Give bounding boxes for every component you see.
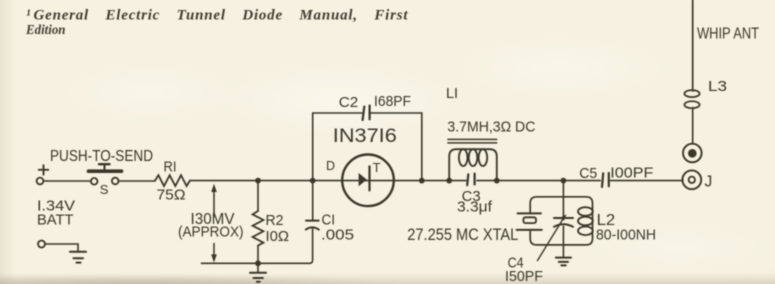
tunnel diode (circle) [342, 155, 394, 207]
svg-text:IN37I6: IN37I6 [333, 126, 397, 147]
node D junction (C1 / C2 tap) [310, 178, 316, 184]
wire C2 feedback loop left/top [313, 113, 362, 181]
inductor L1 loops [459, 149, 487, 166]
node: C2 right junction [419, 178, 425, 184]
capacitor C4 (variable) [554, 218, 573, 245]
battery positive terminal + [37, 165, 49, 184]
svg-text:80-I00NH: 80-I00NH [596, 227, 656, 244]
wire R2 bottom [257, 246, 259, 264]
wire tank junction down to C4 [562, 181, 564, 218]
wire plug to L3 [692, 108, 694, 144]
tunnel diode triangle (anode) [359, 173, 367, 186]
svg-text:I0Ω: I0Ω [266, 228, 290, 245]
node: rail junction under R2 [255, 260, 261, 266]
node: L1 left junction [446, 178, 452, 184]
svg-text:J: J [705, 174, 713, 191]
switch S (push button) [89, 164, 122, 184]
svg-text:C2: C2 [339, 94, 359, 111]
svg-text:PUSH-TO-SEND: PUSH-TO-SEND [50, 148, 153, 165]
svg-text:WHIP ANT: WHIP ANT [697, 26, 759, 43]
ground (tank) [556, 245, 571, 266]
capacitor C5 [602, 173, 609, 187]
svg-text:3.3μf: 3.3μf [457, 199, 493, 216]
node: tank circuit junction [561, 178, 567, 184]
resistor R1 [155, 175, 190, 186]
wire C2 loop right [370, 113, 422, 181]
tank outline (top/bottom rails and L2 branch) [530, 197, 592, 245]
svg-text:Edition: Edition [25, 23, 66, 38]
bottom rail wire (R2/C1 ground rail) [202, 229, 313, 263]
label 1.34V BATT [37, 198, 75, 229]
svg-text:R2: R2 [266, 212, 284, 229]
svg-text:75Ω: 75Ω [157, 187, 186, 204]
wire R2 top [257, 181, 259, 211]
svg-text:27.255 MC XTAL: 27.255 MC XTAL [407, 225, 518, 244]
node: R2 top junction [255, 178, 261, 184]
svg-text:General Electric Tunnel Diode: General Electric Tunnel Diode Manual, Fi… [34, 8, 409, 24]
node: L1 right junction [494, 178, 500, 184]
svg-text:T: T [373, 160, 381, 175]
svg-text:L3: L3 [708, 79, 727, 95]
measurement arrow 130MV [211, 184, 217, 263]
wire C5 to jack J [611, 180, 684, 182]
svg-text:(APPROX): (APPROX) [178, 224, 244, 241]
svg-text:¹: ¹ [26, 8, 31, 24]
crystal Y1 body [523, 217, 536, 223]
connector jack J (open center) [682, 170, 701, 189]
wire R1 to diode [190, 180, 466, 182]
inductor L1 outline [449, 149, 497, 180]
svg-text:I68PF: I68PF [374, 93, 411, 110]
wire C1 top [312, 181, 314, 221]
svg-text:S: S [100, 182, 109, 197]
ground (R2/C1 rail) [250, 263, 266, 282]
ground (battery) [70, 252, 86, 263]
crystal Y1 plates [517, 213, 542, 230]
resistor R2 [253, 211, 264, 246]
wire + terminal to switch [43, 180, 91, 182]
capacitor C1 [306, 221, 319, 230]
capacitor C3 [467, 174, 474, 186]
wire whip antenna [692, 0, 694, 91]
svg-text:BATT: BATT [37, 212, 74, 229]
svg-text:I50PF: I50PF [505, 268, 543, 284]
wire battery negative to ground [45, 244, 78, 252]
capacitor C2 [363, 106, 370, 120]
capacitor C4 arrow [538, 219, 564, 261]
inductor L2 loops [578, 207, 593, 235]
svg-text:3.7MH,3Ω DC: 3.7MH,3Ω DC [447, 120, 535, 136]
footnote text [25, 8, 408, 39]
wire switch to R1 [119, 180, 156, 182]
inductor L3 loops [684, 90, 699, 108]
svg-text:I00PF: I00PF [610, 165, 653, 182]
inductor L1 core lines [448, 139, 497, 143]
wire C3 to C5 [477, 180, 600, 182]
svg-text:C5: C5 [579, 165, 597, 182]
svg-text:RI: RI [164, 159, 177, 176]
svg-text:D: D [326, 159, 335, 173]
tunnel diode cathode bar [368, 166, 370, 190]
battery negative terminal [38, 241, 45, 248]
connector plug (filled center) [683, 144, 702, 163]
svg-text:.005: .005 [321, 227, 354, 244]
svg-text:LI: LI [446, 85, 458, 102]
